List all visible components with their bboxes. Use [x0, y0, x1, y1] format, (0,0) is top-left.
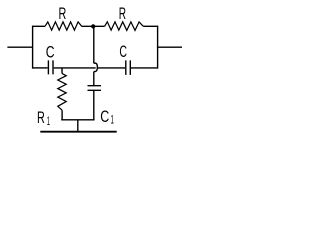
wire between left R and node	[82, 25, 105, 27]
wire top rail left segment	[33, 25, 45, 27]
wire left vertical (top rail to capacitor rail)	[32, 26, 34, 69]
wire top rail right segment	[143, 25, 157, 27]
capacitor C1 plates	[88, 86, 102, 91]
ground rail	[40, 131, 116, 133]
svg-text:C: C	[46, 43, 55, 61]
wire bottom bar joining R1 and C1	[61, 119, 94, 121]
svg-text:1: 1	[111, 113, 114, 127]
wire left input terminal	[7, 46, 32, 48]
svg-text:R: R	[119, 5, 126, 23]
wire from resistor R1 down to bottom bar	[61, 110, 63, 120]
node junction dot	[91, 24, 95, 28]
wire from node down to crossover	[93, 27, 95, 63]
wire from capacitor C1 down to bottom bar	[93, 91, 95, 120]
svg-text:C: C	[119, 43, 127, 61]
wire crossover hop arc	[94, 63, 98, 72]
svg-text:R: R	[37, 109, 45, 127]
wire capacitor rail middle-right segment	[96, 67, 126, 69]
resistor R (left, horizontal zigzag)	[45, 22, 82, 30]
wire from crossover down to capacitor C1	[93, 72, 95, 85]
resistor R (right, horizontal zigzag)	[105, 22, 144, 31]
wire crossover hop (no connection) white mask	[96, 63, 98, 72]
svg-text:C: C	[100, 108, 109, 126]
wire tap from capacitor rail down to resistor R1	[61, 68, 63, 73]
wire stub from bar to ground rail	[77, 120, 79, 131]
wire right vertical (top rail to capacitor rail)	[157, 26, 159, 69]
capacitor C (left) plates	[48, 60, 53, 74]
wire capacitor rail left segment	[33, 67, 48, 69]
wire capacitor rail right segment	[131, 67, 158, 69]
svg-text:R: R	[59, 5, 67, 23]
wire right output terminal	[158, 46, 182, 48]
capacitor C (right) plates	[126, 60, 131, 75]
wire capacitor rail middle segment	[54, 67, 96, 69]
svg-text:1: 1	[47, 114, 50, 128]
resistor R1 (vertical zigzag)	[58, 73, 66, 110]
